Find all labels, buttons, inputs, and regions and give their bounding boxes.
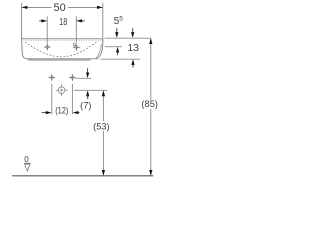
dimension 50: dimension line with arrows [22,6,52,8]
dimension (53): vertical line upper part [102,90,104,121]
dimension 18: extension line right [75,17,77,43]
dimension (53): top arrow [102,90,105,96]
svg-text:(53): (53) [93,121,110,131]
svg-text:(7): (7) [80,100,91,110]
detail view: extension line from cross B down [71,84,73,114]
dimension (85): vertical line upper part [150,38,152,100]
svg-text:50: 50 [53,2,65,14]
dimension (85): top arrow [149,38,152,44]
extension line basin bottom right [101,58,141,60]
dimension 18: outside arrow left [39,20,43,22]
dimension 50: extension line right [102,3,104,43]
washbasin front view: left edge [22,39,28,59]
svg-text:5: 5 [119,16,123,23]
detail view: extension line from cross A down [51,84,53,114]
washbasin front view: right edge outer [97,39,103,59]
detail view: drain circle [58,87,65,94]
washbasin front view: rim top line [22,38,103,40]
svg-text:(85): (85) [141,99,158,109]
floor line [12,175,153,177]
detail view: drain circle crosshair horizontal [56,89,68,91]
washbasin front view: tap hole cross left [44,44,51,51]
dimension 18: extension line left [46,17,48,44]
dimension (53): bottom arrow [102,170,105,176]
svg-text:18: 18 [59,16,67,28]
dimension 50: extension line left [21,3,23,40]
dimension 18: outside arrow right [81,20,85,22]
extension line tap-deck level (5.5 bottom) [105,46,122,48]
detail view: drain circle crosshair vertical [61,84,63,96]
extension line rim level right [105,37,151,39]
washbasin front view: hidden bowl contour (dashed smile) [25,42,97,57]
dimension (12): left outside arrow [42,112,47,114]
datum underline [24,162,30,164]
washbasin front view: overflow circle [73,43,76,46]
dimension (7): bottom outside arrow [86,90,89,96]
washbasin front view: tap hole cross right [73,44,80,51]
svg-text:13: 13 [127,42,139,54]
detail view: tap hole cross B [69,74,76,81]
washbasin front view: dotted rim inner line [24,39,102,41]
washbasin front view: right edge inner [96,44,102,59]
svg-text:0: 0 [24,155,29,164]
dimension (12): right outside arrow [77,112,79,114]
svg-text:(12): (12) [55,105,68,115]
washbasin front view: bottom edge [27,58,99,60]
dimension 13: bottom outside arrow [131,59,134,65]
dimension (85): bottom arrow [149,170,152,176]
washbasin front view: plinth lip line [29,59,90,60]
dimension 13: top outside arrow [132,28,134,33]
detail view: tap hole cross A [48,74,55,81]
dimension 5.5: bottom outside arrow [116,47,119,53]
dimension (7): top extension line [76,77,92,79]
datum triangle [25,164,31,171]
dimension 5.5: top outside arrow [116,28,118,33]
dimension (7): bottom extension line [74,89,108,91]
dimension (7): top outside arrow [87,68,89,74]
dimension (85): vertical line lower part [150,109,152,176]
dimension (53): vertical line lower part [102,131,104,176]
